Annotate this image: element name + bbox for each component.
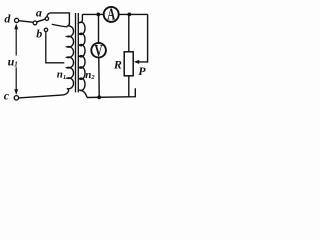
wiper arrowhead: [134, 60, 139, 64]
wire upper tap to primary top (floating left end): [52, 24, 68, 27]
svg-text:P: P: [138, 64, 146, 78]
terminal d: [15, 18, 19, 22]
background: [0, 0, 160, 112]
u1 arrow line upper: [15, 26, 17, 56]
wire d to switch pivot: [19, 21, 33, 23]
switch pivot: [33, 21, 37, 25]
wire resistor bottom down: [128, 76, 130, 97]
junction dot bottom (voltmeter): [97, 95, 101, 99]
svg-text:c: c: [4, 89, 10, 103]
wire secondary top to ammeter: [82, 13, 103, 15]
resistor R body: [124, 52, 133, 76]
wire contact a up and over to primary top: [47, 13, 70, 24]
bottom wire right section with end stub: [87, 88, 135, 97]
wire junction down to resistor top: [128, 14, 130, 51]
wire contact b down and right to primary middle tap: [46, 32, 65, 63]
secondary winding n2: [79, 14, 87, 97]
wire voltmeter bottom: [98, 58, 100, 98]
ammeter A: [104, 7, 119, 22]
junction dot right of ammeter: [127, 13, 131, 17]
u1 up arrowhead: [14, 23, 18, 29]
junction dot left of ammeter: [96, 13, 100, 17]
svg-text:A: A: [107, 5, 116, 24]
svg-text:R: R: [113, 57, 122, 71]
switch blade: [37, 19, 46, 22]
wire voltmeter top: [98, 14, 100, 43]
bottom wire from c to primary: [19, 95, 64, 98]
svg-text:a: a: [36, 6, 42, 20]
terminal c: [14, 96, 18, 100]
u1 arrow line lower: [15, 68, 17, 93]
voltmeter V: [91, 43, 106, 58]
primary winding n1: [63, 23, 73, 95]
contact a: [45, 17, 48, 20]
u1 down arrowhead: [14, 89, 18, 95]
wiper wire from top right corner down to arrow: [139, 14, 148, 62]
contact b: [44, 28, 47, 31]
svg-text:b: b: [36, 27, 42, 41]
wire ammeter to right corner: [119, 13, 148, 15]
core: [75, 13, 77, 92]
svg-text:d: d: [4, 11, 11, 25]
